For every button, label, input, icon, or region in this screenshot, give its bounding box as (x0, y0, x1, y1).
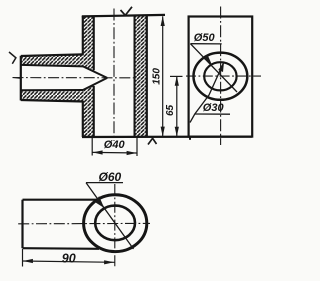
bottom view outer circle D60 (84, 195, 147, 252)
dimension D50: leader line across circle (190, 44, 237, 92)
dimension 65: reference tick at circle centre height (170, 75, 183, 77)
dimension D60: shelf line (86, 182, 123, 184)
vertical pipe outer left edge lower (82, 101, 84, 137)
bottom view vertical centerline (114, 184, 116, 267)
dimension D60: leader line across circle (86, 183, 134, 249)
side view horizontal centerline (186, 75, 261, 77)
dimension 150: dimension line (162, 16, 164, 136)
dimension 90: right arrow (104, 260, 114, 264)
dimension D50: arrowhead (204, 54, 212, 65)
vertical pipe bore left edge lower (93, 86, 95, 137)
dimension 65: top arrow (175, 76, 179, 86)
dimension 65: dimension line (176, 76, 178, 137)
branch bore top edge (21, 65, 83, 67)
dimension D40: right arrow (127, 151, 137, 155)
bottom edge of tee extended right below side view (82, 135, 252, 138)
dimension 90: left arrow (23, 259, 33, 263)
dimension 150: bottom arrow (161, 127, 165, 137)
branch pipe top outer edge (21, 54, 84, 56)
dimension D30: arrowhead (218, 62, 224, 72)
caret tick below bottom edge (148, 138, 157, 144)
vertical pipe outer left edge upper (82, 16, 84, 55)
dimension D30: shelf line (195, 113, 230, 115)
hatched wall: vertical pipe left wall + branch top wall (21, 16, 94, 71)
bottom view horizontal centerline (18, 222, 150, 224)
drill point chamfer lower line (83, 78, 107, 90)
side view plate outline (189, 17, 253, 137)
dimension 90: dimension line (23, 261, 115, 262)
side view outer circle D50 (194, 53, 248, 100)
svg-text:Ø30: Ø30 (203, 102, 225, 114)
bottom view pipe top edge (23, 199, 98, 201)
branch pipe left end cap (20, 56, 22, 101)
vertical pipe outer right edge (146, 16, 148, 137)
svg-text:Ø50: Ø50 (194, 32, 216, 44)
dimension D40: right extension line (136, 138, 138, 157)
svg-text:90: 90 (62, 252, 76, 266)
tick at branch pipe left end (9, 52, 16, 64)
bottom view pipe bottom edge (23, 247, 100, 250)
bottom view pipe left end cap (21, 200, 23, 249)
dimension 150: top arrow (161, 16, 165, 26)
vertical pipe bore right edge (134, 16, 136, 137)
dimension D40: dimension line (92, 151, 137, 154)
dimension 65: bottom arrow (175, 127, 179, 137)
hatched wall: vertical pipe right wall (135, 16, 147, 137)
dimension D40: left extension line (91, 138, 93, 156)
tee vertical centerline (113, 9, 115, 142)
svg-text:Ø60: Ø60 (99, 170, 122, 184)
vertical pipe bore left edge upper (93, 16, 95, 70)
branch horizontal centerline (13, 77, 136, 79)
svg-text:Ø40: Ø40 (104, 139, 126, 151)
branch pipe bottom outer edge (21, 100, 84, 102)
svg-text:150: 150 (152, 68, 163, 85)
dimension D60: arrowhead (95, 196, 104, 208)
branch centerline left arrow tip (12, 77, 20, 79)
branch bore bottom edge (21, 89, 83, 91)
side view plate left edge overshoot (189, 137, 191, 140)
vertical pipe top edge extended to 150 dimension (82, 15, 165, 17)
drill point chamfer upper line (83, 66, 107, 78)
dimension 90: left extension line (22, 249, 24, 267)
dimension D50: shelf line (190, 43, 221, 45)
dimension D40: left arrow (93, 150, 103, 154)
bottom view inner circle (95, 206, 135, 241)
dimension D30: leader line (190, 62, 224, 122)
side view vertical centerline (220, 7, 222, 146)
hatched wall: vertical pipe left wall + branch bottom wall (21, 85, 94, 137)
side view inner circle D30 (204, 62, 236, 90)
svg-text:65: 65 (165, 104, 176, 116)
check tick at top of centerline (121, 7, 133, 16)
